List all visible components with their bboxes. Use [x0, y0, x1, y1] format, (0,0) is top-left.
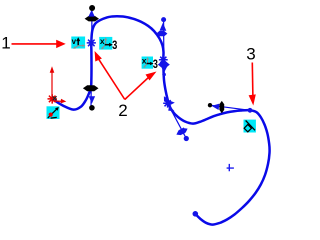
handle UFO P5 vertical — [219, 101, 224, 113]
handle UFO P4 — [176, 128, 187, 135]
origin y axis — [51, 69, 53, 98]
origin x axis — [53, 100, 62, 103]
callout box 5 (diamond icon) — [244, 120, 256, 133]
callout box 2 (x right icon) — [99, 37, 112, 50]
callout box 1 (v up icon) — [71, 37, 85, 49]
handle end dot left P5 — [208, 103, 212, 107]
handle arrow up P2 — [88, 10, 94, 17]
handle UFO bottom P2 — [83, 85, 99, 91]
annotation arrow 3 — [251, 63, 254, 98]
annotation arrow 2a to P2 — [98, 58, 125, 100]
annotation arrow 1 — [12, 43, 59, 45]
annotation arrow 2b to P3 — [125, 77, 150, 100]
handle dot bottom P2 — [89, 105, 95, 111]
callout box 3 (x right icon) — [142, 57, 153, 69]
sketch origin red asterisk — [48, 94, 57, 103]
handle UFO lower P3 — [158, 62, 170, 67]
handle arrow down P2 — [89, 96, 95, 103]
svg-text:3: 3 — [153, 57, 158, 71]
spline point P4 asterisk — [163, 99, 172, 108]
handle right wedge P4 — [169, 100, 175, 105]
spline point P5 dot — [248, 108, 253, 113]
svg-text:1: 1 — [1, 34, 10, 53]
svg-text:2: 2 — [118, 101, 127, 120]
tangent handle line at point P3 — [163, 20, 165, 74]
svg-text:x: x — [100, 36, 105, 46]
plus mark — [227, 164, 234, 171]
spline end dot — [193, 211, 199, 217]
handle arrow left P5 — [212, 104, 220, 110]
spline curve — [55, 16, 270, 224]
handle dot top P3 — [161, 17, 166, 22]
callout box 4 (diagonal arrow icon) — [47, 106, 60, 119]
handle UFO upper P3 — [156, 31, 167, 36]
handle UFO top P2 — [85, 16, 99, 21]
sketch origin black marks — [53, 96, 57, 100]
tangent handle line at point P4 — [165, 98, 187, 139]
svg-text:3: 3 — [112, 38, 117, 52]
handle end dot P4 — [184, 136, 189, 141]
svg-text:v: v — [72, 37, 77, 46]
handle small dot lower P3 — [162, 73, 166, 77]
red dot in box 4 — [49, 113, 53, 117]
spline point P3 asterisk — [159, 55, 168, 64]
handle dot top P2 — [89, 5, 95, 11]
handle arrow down P3 — [161, 66, 168, 73]
tangent handle line at point P2 — [91, 9, 92, 107]
handle arrow up P3 — [160, 23, 167, 31]
handle tiny arrow upper P4 — [164, 96, 169, 102]
handle arrow P4 — [178, 127, 184, 135]
svg-text:3: 3 — [246, 45, 255, 64]
tangent handle line at point P5 — [210, 105, 250, 110]
svg-text:x: x — [142, 56, 147, 66]
handle lower wedge P4 — [168, 106, 174, 112]
spline point P2 asterisk — [87, 38, 96, 47]
